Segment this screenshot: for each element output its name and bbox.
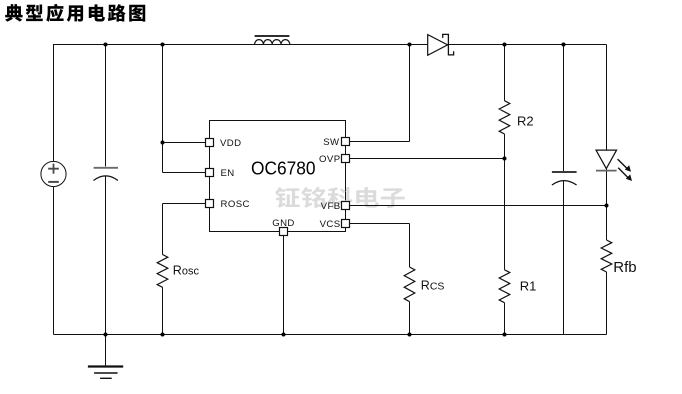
svg-text:R1: R1 [520,279,537,294]
svg-text:ROSC: ROSC [221,199,250,210]
svg-text:SW: SW [323,137,340,148]
svg-text:VDD: VDD [220,138,241,149]
svg-text:EN: EN [221,168,235,179]
svg-text:Rosc: Rosc [173,263,200,277]
svg-text:VCS: VCS [320,219,341,230]
svg-text:VFB: VFB [321,201,341,212]
svg-text:R2: R2 [517,114,534,129]
svg-text:OC6780: OC6780 [251,157,316,178]
svg-text:Rfb: Rfb [613,259,636,276]
svg-text:RCS: RCS [421,279,445,293]
svg-text:OVP: OVP [319,154,340,165]
svg-text:GND: GND [272,218,295,229]
